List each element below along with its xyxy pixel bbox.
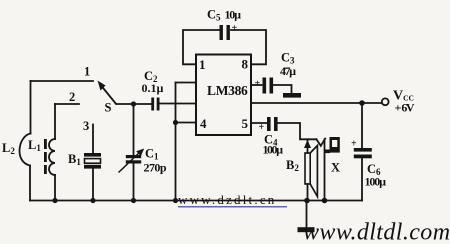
svg-text:+: + — [232, 23, 238, 34]
wire: C6 top lead from Vcc junction — [361, 103, 363, 148]
capacitor C5 plates — [220, 25, 230, 40]
node: rail at C1 — [131, 198, 136, 203]
wire: pin 5 stub to C4 — [251, 122, 267, 124]
ground symbol (bar) — [298, 227, 315, 232]
svg-text:www.dltdl.com: www.dltdl.com — [303, 219, 450, 244]
wire: pin 1 lead to C5 loop — [183, 30, 219, 64]
svg-text:+: + — [259, 122, 265, 133]
node: S / C1 / C2 junction — [131, 101, 136, 106]
wire: C4 to output corner — [278, 123, 317, 139]
svg-text:5: 5 — [242, 116, 249, 131]
wire: pin 7 stub to C3 — [251, 84, 262, 86]
ground bar under C3 — [283, 93, 301, 98]
wire: jack to ground rail — [324, 139, 326, 200]
wire: Vcc line from pin 6 — [251, 102, 382, 104]
wire: C3 to ground bar — [273, 85, 292, 93]
node: rail at speaker/ground — [304, 198, 310, 204]
wire: left vertical lower segment — [29, 166, 31, 201]
antenna loop L2 — [19, 134, 30, 166]
wire: pin4 junction down to ground rail — [175, 123, 177, 201]
svg-text:3: 3 — [83, 119, 89, 133]
capacitor C6 plates — [354, 148, 372, 158]
wire: contact 3 lead to B1 — [92, 125, 94, 154]
svg-text:100µ: 100µ — [263, 143, 284, 157]
Vcc terminal circle — [382, 98, 389, 105]
wire: pin 2 stub — [176, 82, 197, 84]
node: pin4 tie junction — [173, 120, 178, 125]
speaker B2 frame — [305, 153, 310, 184]
wire: speaker branch down — [307, 139, 309, 153]
speaker B2 arrow — [304, 140, 311, 148]
wire: C1 bottom lead — [133, 164, 135, 201]
inductor L1 coil bumps — [49, 139, 55, 175]
capacitor C3 plates — [263, 78, 274, 94]
wire 2 (to switch contact 2) — [55, 103, 79, 105]
node: rail at pin4 line — [173, 198, 178, 203]
svg-text:4: 4 — [200, 116, 207, 131]
wire 1 (top, to switch contact 1) — [31, 80, 94, 82]
wire: C2 to IC pin 3 — [160, 103, 197, 105]
wire: speaker bottom lead — [307, 184, 309, 201]
wire: pin 4 stub — [176, 122, 197, 124]
capacitor C4 plates — [267, 117, 278, 131]
svg-text:LM386: LM386 — [207, 83, 248, 98]
node: rail at B1 — [90, 198, 95, 203]
svg-text:+: + — [351, 139, 357, 150]
svg-text:270p: 270p — [144, 161, 167, 175]
svg-text:S: S — [105, 101, 112, 115]
svg-text:47µ: 47µ — [280, 64, 296, 78]
op-amp IC U1 LM386 box — [196, 55, 251, 136]
node: rail at L1 — [52, 198, 57, 203]
wire: C6 bottom lead to rail corner — [361, 159, 363, 201]
svg-text:2: 2 — [69, 90, 75, 104]
speaker B2 bell — [310, 146, 317, 197]
jack X socket — [325, 137, 340, 153]
svg-text:100µ: 100µ — [365, 175, 387, 189]
wire: B1 bottom lead — [92, 169, 94, 201]
wire: pin2-pin4 tie vertical — [175, 83, 177, 123]
svg-text:www.dzdlt.cn: www.dzdlt.cn — [178, 192, 276, 207]
svg-text:1: 1 — [199, 57, 206, 72]
svg-text:1: 1 — [84, 65, 90, 79]
svg-text:+: + — [255, 79, 261, 90]
ground rail (bottom) — [30, 200, 362, 202]
variable capacitor C1 plates — [126, 155, 141, 164]
wire: left vertical upper segment — [30, 81, 32, 134]
svg-text:10µ: 10µ — [225, 8, 242, 22]
svg-text:X: X — [331, 161, 340, 175]
svg-text:0.1µ: 0.1µ — [142, 81, 164, 95]
inductor L1 core (dashed) — [44, 139, 47, 174]
node: rail at jack line — [322, 198, 328, 204]
wire: C1 top lead from junction — [133, 104, 135, 155]
wire: ground symbol drop — [306, 201, 308, 228]
wire: C5 right to pin 8 lead — [231, 30, 266, 64]
jack plug V contact — [316, 139, 325, 146]
node: Vcc line at C6 — [359, 100, 365, 106]
wire: L1 top lead — [54, 104, 56, 139]
svg-text:8: 8 — [242, 57, 249, 72]
C1 arrow — [119, 149, 145, 173]
capacitor C2 plates — [151, 98, 159, 111]
wire: switch pivot to C2 — [117, 103, 152, 105]
wire: L1 bottom lead — [54, 175, 56, 201]
resonator B1 plates and body — [84, 153, 101, 169]
switch S arm — [98, 81, 117, 105]
svg-text:+ 6V: + 6V — [395, 101, 415, 115]
